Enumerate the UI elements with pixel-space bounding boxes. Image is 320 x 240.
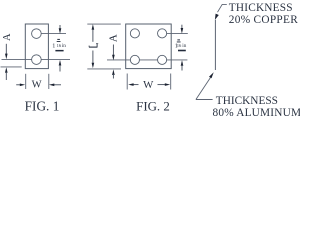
svg-text:THICKNESS: THICKNESS <box>229 2 293 14</box>
wire center line top right hole fig2 <box>162 32 188 34</box>
wire bottom edge extension fig2 <box>87 68 121 70</box>
extension tick W right fig2 <box>170 74 172 90</box>
W left arrow fig1 <box>16 84 21 86</box>
hole fig1 top <box>32 29 42 39</box>
svg-text:1: 1 <box>52 42 55 49</box>
extension tick W right fig1 <box>48 74 50 89</box>
wire A tail below fig2 <box>112 74 114 79</box>
W right arrow fig1 <box>53 84 62 86</box>
wire vertical thickness line <box>214 20 216 70</box>
arrowhead bottom leader <box>209 72 214 78</box>
hole fig2 top-left <box>130 29 139 38</box>
svg-text:in: in <box>62 43 66 49</box>
wire top edge extension fig2 <box>87 23 121 25</box>
wire A tail below fig1 <box>5 72 7 80</box>
dimension arrow down (hole spacing) fig1 <box>59 25 61 30</box>
wire center line bottom hole fig1 <box>2 59 71 61</box>
svg-text:FIG. 2: FIG. 2 <box>136 100 170 114</box>
label L fig2 <box>89 44 98 48</box>
svg-text:THICKNESS: THICKNESS <box>216 95 278 107</box>
svg-text:FIG. 1: FIG. 1 <box>25 99 60 114</box>
leader bottom horizontal <box>196 99 213 101</box>
hole fig2 top-right <box>158 29 167 38</box>
fraction label fig1 <box>52 39 66 52</box>
svg-text:80% ALUMINUM: 80% ALUMINUM <box>213 107 301 119</box>
arrowhead A up fig1 <box>5 67 8 73</box>
arrowhead A down fig2 <box>112 55 115 61</box>
wire tail below fig2 fraction <box>181 65 183 71</box>
arrowhead A down fig1 <box>5 54 8 60</box>
leader top diagonal <box>218 4 227 12</box>
arrowhead up (hole spacing) fig1 <box>59 60 62 66</box>
dimension line L fig2 <box>92 29 94 42</box>
arrowhead up (hole spacing) fig2 <box>181 60 184 66</box>
svg-text:W: W <box>143 79 154 91</box>
svg-text:W: W <box>32 80 42 91</box>
svg-text:in: in <box>182 43 186 49</box>
wire center line bottom holes fig2 <box>107 59 187 61</box>
plate FIG1 <box>25 24 48 69</box>
plate FIG2 <box>126 24 172 69</box>
hole fig2 bottom-right <box>158 55 167 64</box>
svg-text:20% COPPER: 20% COPPER <box>229 14 298 26</box>
W left arrow fig2 (inside pointing left) <box>132 84 139 86</box>
extension tick W left fig1 <box>25 74 27 89</box>
arrowhead top leader <box>215 14 219 20</box>
svg-text:16: 16 <box>177 43 182 48</box>
dimension arrow down (hole spacing) fig2 <box>181 25 183 30</box>
dimension line A fig1 <box>5 44 7 55</box>
W right arrow fig2 (inside pointing right) <box>158 84 167 86</box>
wire bottom edge extension fig1 <box>1 66 22 68</box>
hole fig1 bottom <box>32 55 42 65</box>
hole fig2 bottom-left <box>130 55 139 64</box>
arrowhead L down fig2 <box>92 63 95 69</box>
svg-text:A: A <box>107 34 119 42</box>
wire center line top hole fig1 <box>36 33 66 35</box>
arrowhead A up fig2 <box>112 69 115 75</box>
extension tick W left fig2 <box>126 74 128 90</box>
dimension line A fig2 <box>112 45 114 57</box>
leader bottom diagonal <box>196 78 211 100</box>
arrowhead L up fig2 <box>92 24 95 30</box>
fraction label fig2 <box>175 39 187 51</box>
svg-text:A: A <box>2 33 13 41</box>
wire tail below fig1 fraction <box>59 65 61 72</box>
